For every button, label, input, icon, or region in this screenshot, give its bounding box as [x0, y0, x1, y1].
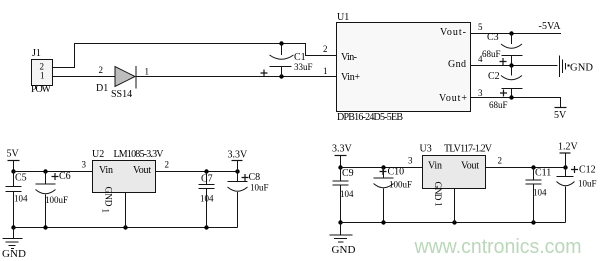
svg-text:GND: GND [103, 187, 113, 207]
svg-text:C6: C6 [59, 171, 71, 182]
svg-text:3: 3 [408, 156, 413, 166]
svg-text:100uF: 100uF [389, 180, 412, 190]
capacitor C1 [261, 44, 294, 77]
svg-text:Vin: Vin [99, 165, 113, 176]
svg-text:104: 104 [340, 189, 354, 199]
svg-text:SS14: SS14 [111, 89, 132, 100]
svg-text:10uF: 10uF [578, 179, 597, 189]
svg-text:3: 3 [478, 88, 483, 98]
svg-text:GND: GND [432, 182, 442, 201]
svg-text:POW: POW [31, 84, 52, 95]
svg-text:Vin+: Vin+ [341, 72, 360, 83]
junction 5V rail / C5 [11, 169, 15, 173]
ground GND (bar style) [560, 56, 570, 78]
power 5V (bottom left) [7, 149, 20, 172]
junction rail / C11 [531, 220, 535, 224]
wire U3 GND pin to rail [454, 189, 456, 223]
capacitor C3 [500, 34, 523, 66]
svg-text:100uF: 100uF [45, 195, 68, 205]
junction rail / C10 [381, 220, 385, 224]
svg-text:1: 1 [101, 209, 111, 214]
svg-text:3.3V: 3.3V [332, 144, 353, 155]
junction bottom wire / C1 [279, 74, 283, 78]
svg-text:C5: C5 [15, 173, 27, 184]
junction top rail / C1 [279, 41, 283, 45]
module U1 [337, 23, 471, 112]
wire U3 Vout to 1.2V [486, 167, 568, 169]
junction wire / C10 [381, 165, 385, 169]
svg-text:2: 2 [99, 65, 104, 75]
junction 3.3V / C9 / rail [338, 165, 342, 169]
svg-text:104: 104 [533, 188, 547, 198]
svg-text:1: 1 [40, 71, 45, 81]
svg-text:Vin: Vin [428, 161, 442, 172]
svg-text:5V: 5V [554, 110, 567, 121]
junction wire / C11 [531, 165, 535, 169]
svg-text:Vout: Vout [461, 161, 479, 172]
junction Gnd wire / C3 / C2 [509, 63, 513, 67]
svg-text:DPB16-24D5-5EB: DPB16-24D5-5EB [337, 112, 403, 123]
wire bottom rail (U3 section) [341, 222, 566, 224]
wire U2 Vout to 3.3V [156, 171, 238, 173]
capacitor C7 [199, 172, 215, 228]
capacitor C8 [228, 172, 249, 228]
capacitor C5 [6, 172, 22, 228]
svg-text:2: 2 [323, 44, 328, 54]
svg-text:2: 2 [498, 156, 503, 166]
junction bottom rail / C9 / GND [338, 220, 342, 224]
svg-text:LM1085-3.3V: LM1085-3.3V [114, 149, 165, 160]
svg-text:C12: C12 [579, 165, 596, 176]
svg-text:3: 3 [82, 160, 87, 170]
regulator U2 [93, 161, 156, 207]
svg-text:-5VA: -5VA [539, 21, 562, 32]
svg-text:5: 5 [478, 22, 483, 32]
svg-text:Vout: Vout [133, 165, 151, 176]
wire 3.3V to U3 Vin [341, 167, 423, 169]
svg-text:Vin-: Vin- [341, 52, 357, 63]
svg-text:1: 1 [145, 67, 150, 77]
power 3.3V (left column) [228, 150, 249, 172]
svg-text:1.2V: 1.2V [558, 142, 579, 153]
svg-text:D1: D1 [96, 83, 108, 94]
capacitor C2 [500, 66, 523, 98]
svg-text:68uF: 68uF [489, 100, 508, 110]
svg-text:GND: GND [570, 63, 593, 74]
svg-text:C2: C2 [488, 71, 500, 82]
svg-text:C9: C9 [342, 168, 354, 179]
svg-text:TLV117-1.2V: TLV117-1.2V [444, 144, 493, 155]
ground GND (earth, left) [3, 228, 23, 249]
svg-text:10uF: 10uF [250, 183, 269, 193]
svg-text:104: 104 [200, 194, 214, 204]
capacitor C12 [557, 166, 579, 223]
ground GND (earth, right section) [330, 223, 353, 243]
junction Vout+ wire / C2 [509, 95, 513, 99]
svg-text:4: 4 [478, 54, 483, 64]
svg-text:2: 2 [165, 160, 170, 170]
svg-text:Gnd: Gnd [448, 59, 466, 70]
svg-text:3.3V: 3.3V [228, 150, 249, 161]
svg-text:C3: C3 [487, 32, 499, 43]
wire U1 Gnd to GND [471, 65, 558, 67]
junction rail / U2 GND [123, 225, 127, 229]
svg-text:1: 1 [323, 66, 328, 76]
svg-text:U2: U2 [92, 149, 104, 160]
svg-text:5V: 5V [7, 149, 20, 160]
svg-text:C10: C10 [388, 167, 405, 178]
wire U1 Vout+ to 5V [471, 98, 561, 108]
power 3.3V (bottom right section) [332, 144, 353, 168]
svg-text:Vout+: Vout+ [439, 93, 467, 104]
svg-text:www.cntronics.com: www.cntronics.com [414, 235, 582, 258]
diode D1 [115, 66, 136, 89]
junction wire / 3.3V / C8 [235, 169, 239, 173]
junction rail / U3 GND [452, 220, 456, 224]
svg-text:1: 1 [434, 202, 444, 207]
svg-text:GND: GND [332, 244, 356, 256]
wire D1 cathode to U1 Vin+ (pin 1) [136, 76, 337, 78]
junction bottom rail / C5 / GND [11, 225, 15, 229]
wire J1 pin1 to diode D1 anode [53, 76, 116, 78]
svg-text:C7: C7 [201, 174, 213, 185]
junction rail / C6 [43, 225, 47, 229]
junction Vout- wire / C3 [509, 31, 513, 35]
regulator U3 [423, 156, 486, 201]
svg-text:U1: U1 [337, 12, 349, 23]
svg-text:C8: C8 [249, 172, 261, 183]
wire J1 pin2 to U1 Vin- (pin 2) [53, 44, 337, 68]
connector J1 [32, 60, 53, 86]
junction rail / C6 [43, 169, 47, 173]
wire 5V to U2 Vin [14, 171, 93, 173]
svg-text:104: 104 [14, 194, 28, 204]
svg-text:GND: GND [2, 248, 26, 260]
power 5V (top right) [554, 108, 567, 122]
junction wire / C7 [204, 169, 208, 173]
power 1.2V [558, 142, 579, 168]
capacitor C9 [333, 168, 349, 223]
wire U1 Vout- to -5VA [471, 33, 562, 35]
wire U2 GND pin to rail [125, 193, 127, 228]
svg-text:68uF: 68uF [482, 49, 501, 59]
svg-text:J1: J1 [32, 48, 41, 59]
wire bottom rail (U2 section) [14, 227, 238, 229]
junction wire / 1.2V / C12 [563, 165, 567, 169]
svg-text:U3: U3 [420, 144, 432, 155]
svg-text:C11: C11 [535, 168, 551, 179]
junction rail / C7 [204, 225, 208, 229]
capacitor C11 [526, 168, 542, 223]
svg-text:Vout-: Vout- [440, 27, 466, 38]
capacitor C10 [374, 168, 394, 223]
capacitor C6 [36, 172, 59, 228]
svg-text:33uF: 33uF [294, 62, 313, 72]
